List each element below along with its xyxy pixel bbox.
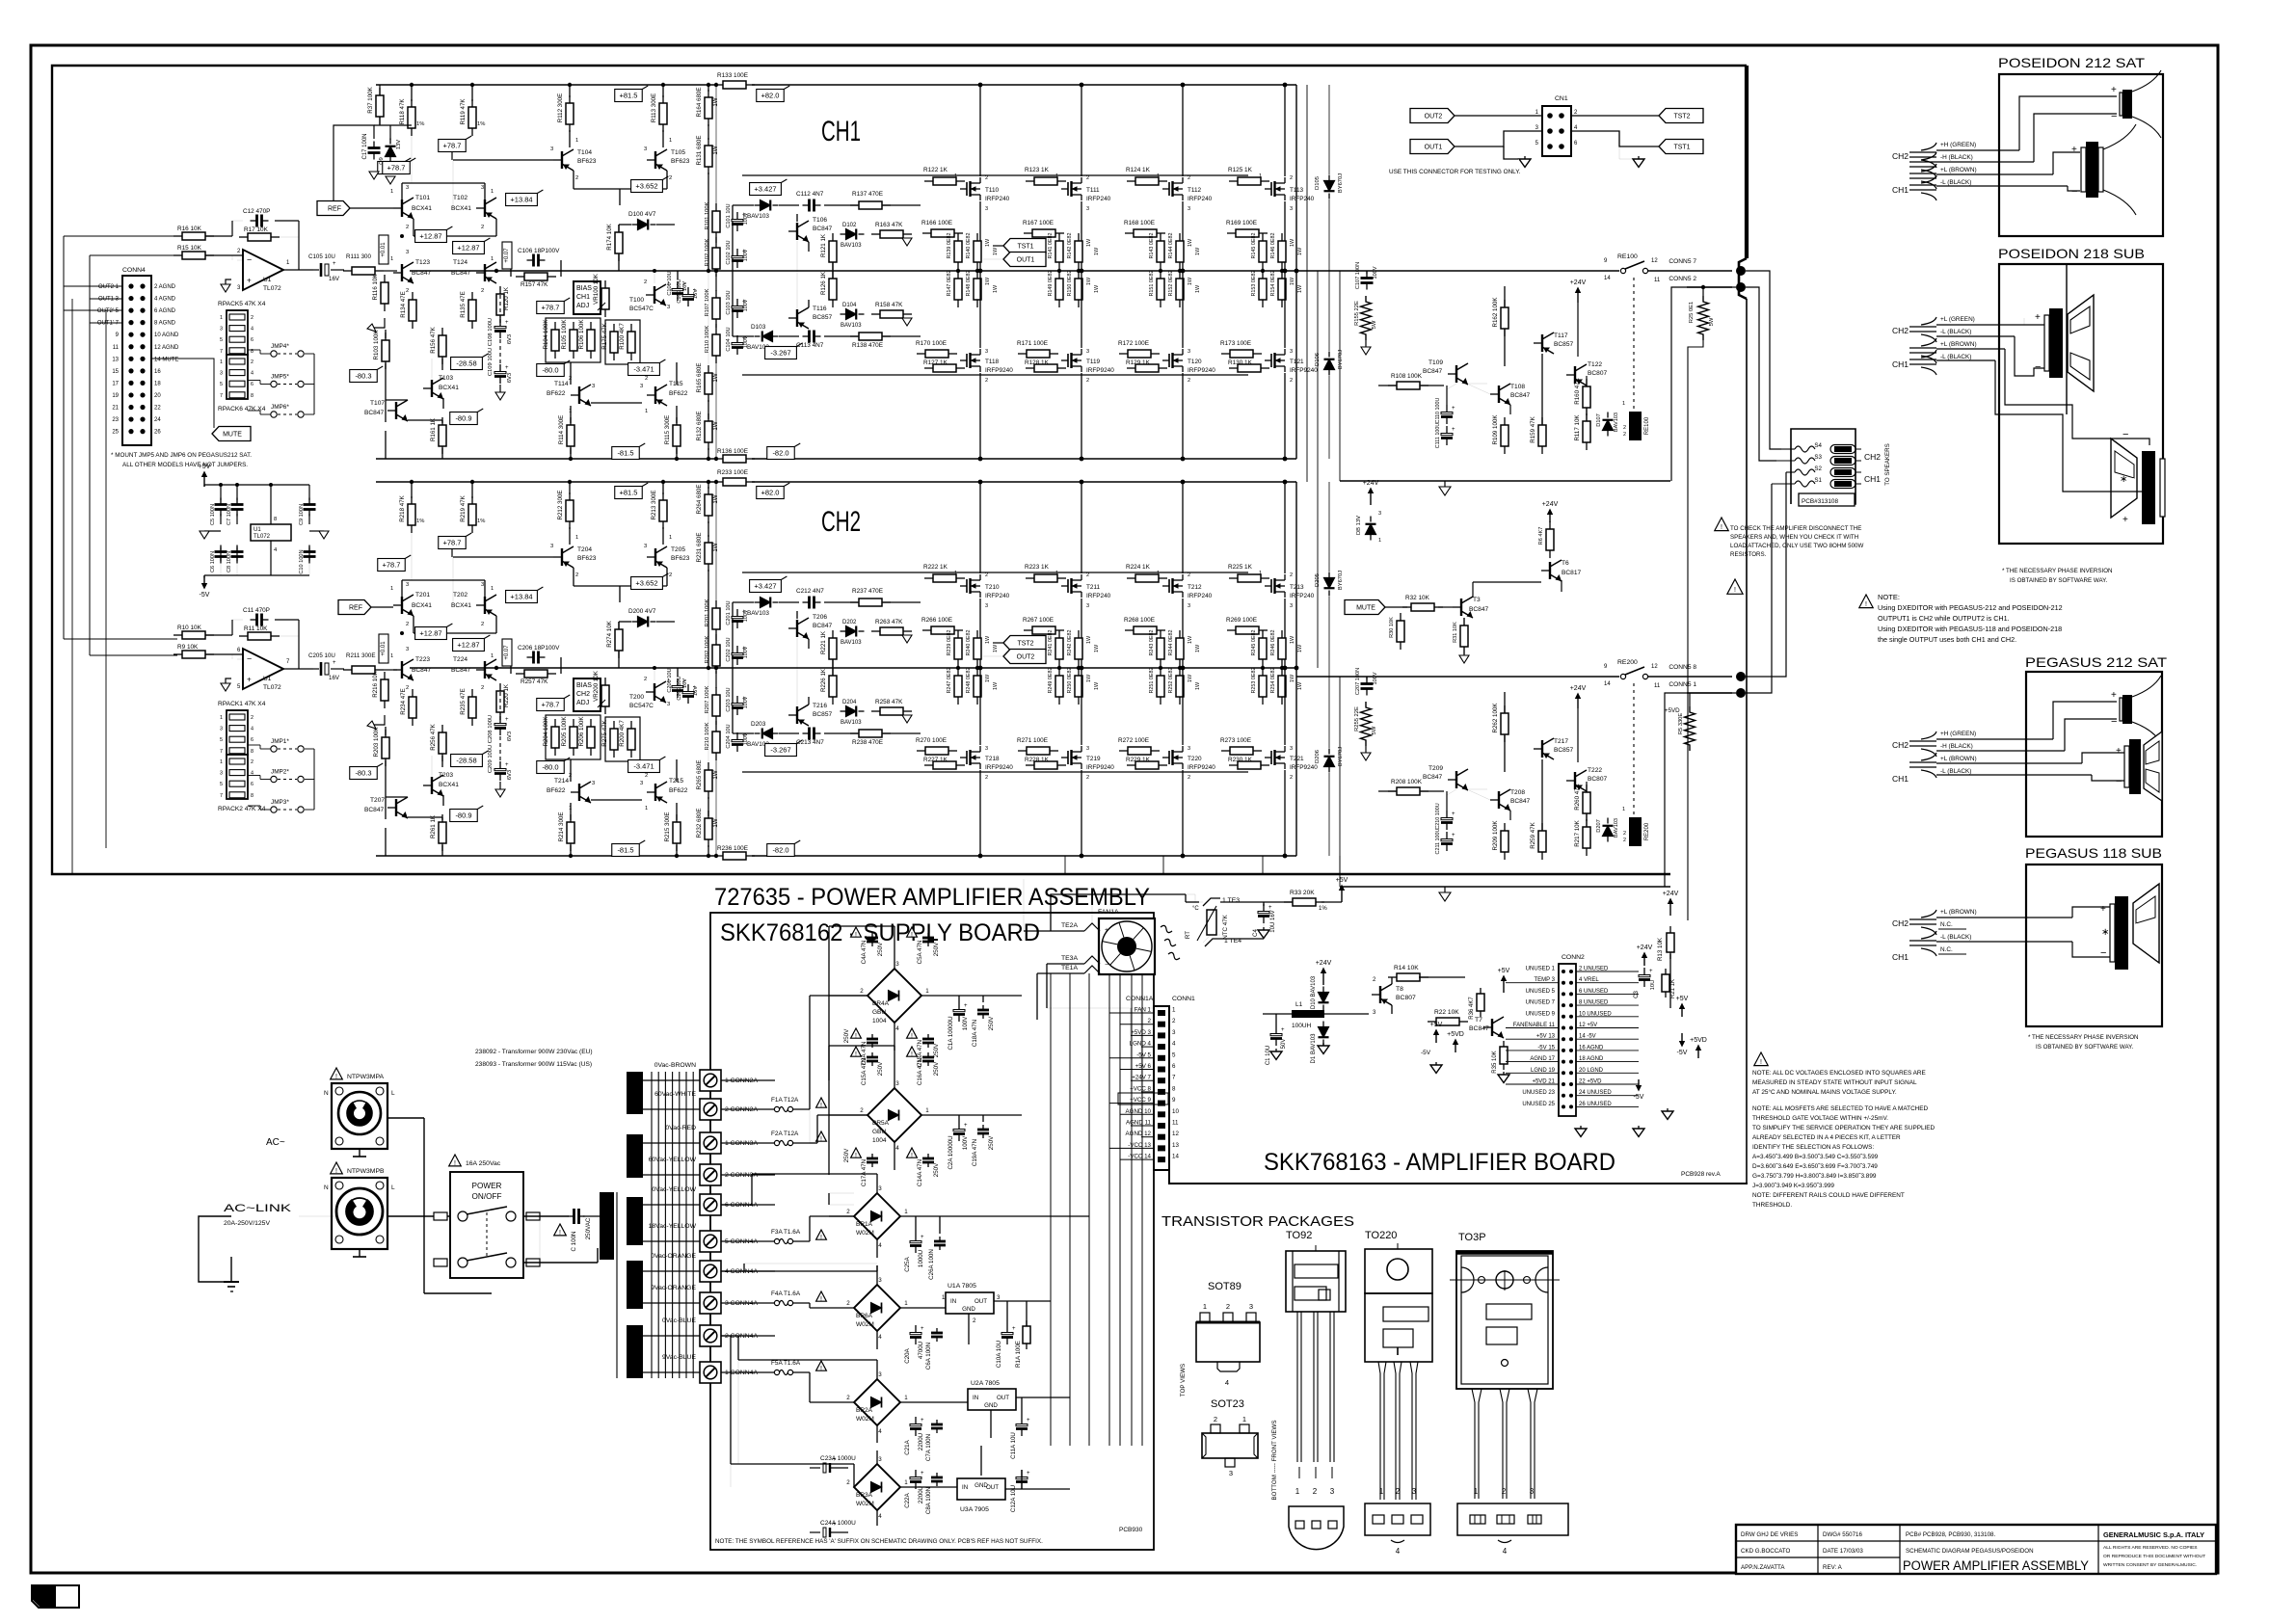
svg-text:BC817: BC817 [1562, 570, 1581, 576]
mosfet T119 IRFP9240 [1067, 354, 1069, 367]
svg-text:C7A 100N: C7A 100N [925, 1434, 932, 1461]
svg-text:IDENTIFY THE SELECTION AS: IDENTIFY THE SELECTION AS FOLLOWS: [1752, 1144, 1874, 1151]
svg-text:RPACK2 47K X4: RPACK2 47K X4 [218, 806, 266, 812]
svg-text:10: 10 [1172, 1108, 1179, 1115]
capacitor C17 100N [373, 142, 375, 148]
svg-text:1%: 1% [477, 519, 485, 524]
terminal 1 CONN4A 9Vac-BLUE [643, 1371, 700, 1373]
capacitor C212 4N7 [803, 601, 810, 603]
resistor pack RPACK2 47K X4 [227, 755, 248, 799]
svg-text:R242 0E82: R242 0E82 [1067, 630, 1073, 656]
svg-text:−: − [2035, 361, 2041, 373]
resistor R125 1K CH2 [1229, 577, 1238, 579]
wires driver CH1 [733, 204, 754, 206]
wire drain column CH2 col1 [1081, 482, 1082, 573]
svg-text:D100 4V7: D100 4V7 [628, 211, 656, 218]
svg-text:R174 10K: R174 10K [606, 223, 613, 250]
resistor R112 300E [569, 95, 571, 103]
svg-text:BY670J: BY670J [1338, 571, 1344, 590]
svg-text:14: 14 [1604, 681, 1611, 687]
svg-text:+: + [833, 1522, 837, 1528]
svg-text:* THE NECESSARY PHASE INVE: * THE NECESSARY PHASE INVERSION [2028, 1034, 2139, 1041]
hexflag MUTE mid [1345, 600, 1385, 615]
svg-text:R214 300E: R214 300E [558, 812, 565, 842]
svg-text:+3.427: +3.427 [754, 582, 776, 591]
svg-text:F5A T1.6A: F5A T1.6A [771, 1360, 801, 1367]
svg-text:R144 0E82: R144 0E82 [1168, 233, 1174, 259]
svg-text:22: 22 [154, 406, 161, 412]
svg-text:R138 470E: R138 470E [852, 342, 883, 349]
voltage -3.471 CH1 [628, 363, 660, 376]
source resistors lower R147 R148 0E82 [957, 271, 959, 279]
svg-text:1W: 1W [712, 818, 719, 827]
svg-text:+24V 7: +24V 7 [1132, 1075, 1151, 1081]
junction dots col2 CH1 [1181, 83, 1186, 88]
svg-text:14: 14 [1172, 1154, 1179, 1160]
svg-text:WRITTEN CONSENT BY GENER: WRITTEN CONSENT BY GENERALMUSIC. [2103, 1562, 2197, 1568]
junction dots col3 CH1 [1283, 83, 1288, 88]
package TO220 bottom [1365, 1503, 1430, 1535]
svg-text:R161 1K: R161 1K [430, 417, 437, 441]
svg-text:+5VD: +5VD [1665, 707, 1680, 714]
svg-text:RT: RT [1185, 931, 1191, 939]
svg-text:UNUSED 23: UNUSED 23 [1522, 1090, 1555, 1096]
svg-text:JMP1*: JMP1* [271, 738, 289, 745]
resistor R127 1K CH1 [924, 367, 933, 369]
resistor R121 1K [832, 233, 834, 241]
svg-text:-VCC 13: -VCC 13 [1128, 1142, 1151, 1149]
pin CONN1 -VCC 13 [1158, 1145, 1165, 1151]
svg-text:+12.87: +12.87 [457, 641, 479, 650]
svg-text:+VCC 8: +VCC 8 [1130, 1085, 1151, 1092]
svg-text:!: ! [820, 1136, 822, 1143]
svg-text:TOP VIEWS: TOP VIEWS [1180, 1364, 1187, 1397]
svg-text:0Vac-ORANGE: 0Vac-ORANGE [651, 1253, 696, 1260]
svg-text:-82.0: -82.0 [772, 846, 788, 855]
svg-text:4: 4 [878, 1428, 882, 1435]
svg-text:5W: 5W [1372, 726, 1377, 734]
svg-text:R36 4K7: R36 4K7 [1469, 997, 1475, 1020]
wires bias CH1 [618, 225, 620, 231]
wire drain column CH1 col1 [1081, 85, 1082, 176]
transistor T3 BC847 [1460, 599, 1462, 616]
diode D206 BY670J [1328, 749, 1330, 755]
svg-text:60Vac-YELLOW: 60Vac-YELLOW [649, 1157, 697, 1163]
svg-text:BC857: BC857 [813, 711, 832, 718]
svg-text:+24V: +24V [1363, 480, 1379, 487]
connector lug S1 [1830, 480, 1855, 489]
voltage +3.652 CH2 [631, 577, 663, 590]
svg-text:C6 100N: C6 100N [210, 551, 216, 572]
svg-text:R137 470E: R137 470E [852, 191, 883, 198]
svg-text:R210 100K: R210 100K [705, 722, 710, 750]
svg-text:CH2: CH2 [1864, 452, 1881, 462]
svg-text:F4A T1.6A: F4A T1.6A [771, 1290, 801, 1297]
transistor T6 BC817 [1549, 562, 1551, 579]
svg-text:REF: REF [328, 206, 341, 213]
ground conn2 [1580, 1126, 1582, 1129]
svg-text:C3: C3 [1634, 991, 1640, 998]
svg-text:R271 100E: R271 100E [1017, 737, 1048, 744]
capacitor C10 100N [308, 545, 310, 552]
hexflag REF CH2 [338, 600, 371, 615]
svg-text:1: 1 [491, 653, 494, 659]
mosfet T113 IRFP240 [1270, 182, 1272, 196]
svg-text:R124 1K: R124 1K [1126, 167, 1151, 173]
svg-text:2: 2 [251, 715, 254, 721]
svg-text:R130 1K: R130 1K [1228, 359, 1253, 366]
wires poseidon212 [1936, 149, 2019, 151]
svg-text:3: 3 [644, 544, 647, 549]
+24V arrow DB [1370, 493, 1372, 505]
svg-text:+3.652: +3.652 [635, 182, 657, 191]
svg-text:BC847: BC847 [813, 226, 832, 232]
svg-text:2: 2 [1188, 572, 1190, 578]
svg-text:3: 3 [895, 1080, 899, 1087]
svg-text:LOAD ATTACHED, ONLY USE TW: LOAD ATTACHED, ONLY USE TWO 8OHM 500W [1730, 543, 1863, 549]
svg-text:C100 10U: C100 10U [677, 279, 682, 303]
capacitor C6A 100N [936, 1328, 938, 1333]
svg-text:R170 100E: R170 100E [916, 340, 947, 347]
svg-text:2: 2 [1188, 378, 1190, 384]
svg-text:1W: 1W [1195, 247, 1201, 255]
voltage +78.7 bias CH2 [537, 699, 565, 711]
svg-text:238092 - Transformer 900W: 238092 - Transformer 900W 230Vac (EU) [475, 1049, 593, 1055]
svg-text:POWER: POWER [472, 1182, 502, 1190]
svg-text:1: 1 [1259, 173, 1262, 179]
svg-text:!: ! [335, 1074, 337, 1080]
svg-text:C18A 47N: C18A 47N [972, 1020, 978, 1047]
svg-text:R246 0E82: R246 0E82 [1270, 630, 1276, 656]
svg-text:C16A 47N: C16A 47N [917, 1058, 923, 1085]
svg-text:14 MUTE: 14 MUTE [154, 357, 178, 362]
transistor T209 BC847 [1455, 771, 1457, 788]
svg-text:!: ! [855, 932, 857, 939]
ground c108 CH2 [499, 782, 501, 789]
svg-text:2: 2 [1290, 572, 1293, 578]
capacitor C5 100N [220, 498, 222, 505]
svg-text:IRFP240: IRFP240 [985, 593, 1010, 599]
svg-text:FAN1A: FAN1A [1098, 909, 1119, 916]
svg-text:GND: GND [984, 1402, 998, 1409]
wire relay to conn5 CH2 [1648, 676, 1732, 678]
zener Q9 13V [389, 139, 391, 145]
svg-text:R117 10K: R117 10K [1574, 414, 1581, 441]
svg-text:4700U: 4700U [918, 1342, 924, 1359]
svg-text:3: 3 [406, 250, 409, 255]
svg-text:3: 3 [644, 146, 647, 152]
svg-text:!: ! [820, 1366, 822, 1372]
svg-text:2: 2 [1086, 572, 1089, 578]
resistor R172 100E CH1 [1119, 353, 1128, 355]
svg-text:+: + [1649, 969, 1653, 974]
mosfet T118 IRFP9240 [966, 354, 968, 367]
svg-text:C4A 47N: C4A 47N [861, 941, 868, 965]
svg-text:BF622: BF622 [547, 390, 566, 397]
svg-text:+5V: +5V [1336, 877, 1348, 884]
source resistors R141 R142 0E82 [1058, 233, 1060, 241]
resistor R31 10K [1463, 618, 1465, 625]
capacitor C1A 10000U 100V [958, 1002, 960, 1010]
wires bridge BR4A [894, 926, 895, 969]
svg-text:R223 1K: R223 1K [1025, 564, 1050, 571]
wires lower input CH2 [385, 727, 387, 735]
resistor R202 100K [715, 637, 717, 645]
svg-text:100V: 100V [1373, 266, 1378, 279]
svg-text:G=3.750˜3.799 H=3.800˜3.849: G=3.750˜3.799 H=3.800˜3.849 I=3.850˜3.89… [1752, 1173, 1877, 1180]
svg-text:R133 100E: R133 100E [717, 72, 748, 79]
svg-text:1W: 1W [1290, 674, 1295, 682]
svg-text:6V3: 6V3 [507, 770, 513, 780]
svg-text:R266 100E: R266 100E [921, 617, 952, 624]
svg-text:1: 1 [904, 1300, 908, 1307]
svg-text:+78.7: +78.7 [443, 142, 462, 150]
capacitor C100b 10U 16V [687, 287, 689, 295]
mosfet T120 IRFP9240 [1168, 354, 1170, 367]
svg-text:11: 11 [1654, 278, 1661, 283]
svg-text:SKK768163 - AMPLIFIER BOARD: SKK768163 - AMPLIFIER BOARD [1264, 1149, 1615, 1176]
voltage -80.0 CH2 [537, 761, 565, 774]
svg-text:OUT: OUT [997, 1395, 1009, 1401]
capacitor C4 10U 16V [1263, 904, 1265, 912]
svg-text:CONN5 8: CONN5 8 [1669, 664, 1696, 671]
svg-text:R101 100K: R101 100K [705, 201, 710, 229]
resistor R116 10K [384, 275, 386, 282]
svg-text:CH1: CH1 [576, 294, 590, 301]
resistor R168 100E CH2 [1125, 629, 1134, 631]
diode D101 BAV103 [755, 204, 761, 206]
svg-text:PCB928 rev.A: PCB928 rev.A [1681, 1171, 1721, 1178]
resistor R264 680E [707, 487, 709, 494]
resistor R128 1K CH1 [1026, 367, 1034, 369]
capacitor C2A 10000U 100V [958, 1122, 960, 1130]
connector NTPW3MPB [331, 1162, 343, 1174]
svg-text:D=3.600˜3.649 E=3.650˜3.699: D=3.600˜3.649 E=3.650˜3.699 F=3.700˜3.74… [1752, 1163, 1878, 1170]
svg-text:NOTE: ALL DC VOLTAGES ENCL: NOTE: ALL DC VOLTAGES ENCLOSED INTO SQUA… [1752, 1070, 1926, 1077]
svg-text:1 TE3: 1 TE3 [1222, 897, 1240, 904]
svg-text:2: 2 [846, 1479, 850, 1486]
inductor L1 100UH [1292, 1010, 1324, 1018]
svg-text:1: 1 [220, 715, 223, 721]
svg-text:1W: 1W [1188, 238, 1193, 247]
svg-text:T105: T105 [671, 149, 685, 156]
svg-text:R106 100K: R106 100K [578, 319, 585, 350]
svg-text:1: 1 [1474, 1487, 1479, 1496]
+5V arrow power block [203, 477, 205, 487]
svg-text:RPACK5 47K X4: RPACK5 47K X4 [218, 301, 266, 307]
svg-text:1: 1 [1378, 538, 1381, 544]
wire ref supply [334, 125, 374, 200]
svg-text:1W: 1W [993, 284, 999, 293]
source resistors R239 R240 0E82 [957, 630, 959, 638]
svg-text:R150 0E82: R150 0E82 [1067, 271, 1073, 297]
pin CONN1 AGND 12 [1158, 1134, 1165, 1140]
svg-text:100V: 100V [962, 1016, 969, 1030]
svg-text:BCX41: BCX41 [451, 602, 471, 609]
resistor R207 100K [715, 687, 717, 695]
voltage +78.7 b CH2 [378, 559, 406, 572]
svg-text:CH1: CH1 [1892, 774, 1909, 784]
svg-text:1: 1 [1172, 1007, 1176, 1014]
svg-text:AGND 10: AGND 10 [1126, 1108, 1152, 1115]
svg-text:C105 10U: C105 10U [308, 253, 335, 260]
resistor R21 1K [1665, 969, 1667, 974]
junction dots rails CH1 [410, 83, 414, 87]
svg-text:CH1: CH1 [1864, 474, 1881, 484]
wires opamp CH1 [205, 235, 232, 237]
wires supply routing [809, 996, 811, 1109]
wires cn1 [1455, 115, 1542, 117]
terminal 1 CONN3A 0Vac-RED [643, 1142, 700, 1144]
svg-text:BF623: BF623 [577, 555, 597, 562]
svg-text:+: + [1452, 811, 1455, 817]
capacitor C4A 47N [871, 933, 873, 938]
svg-text:R203 100K: R203 100K [373, 727, 380, 758]
svg-text:+: + [1452, 427, 1455, 433]
svg-text:POSEIDON 212 SAT: POSEIDON 212 SAT [1998, 55, 2146, 70]
svg-text:* THE NECESSARY PHASE INVE: * THE NECESSARY PHASE INVERSION [2002, 568, 2113, 574]
svg-text:R229 1K: R229 1K [1126, 757, 1151, 763]
svg-text:-5V: -5V [1421, 1050, 1431, 1056]
svg-text:3: 3 [667, 702, 670, 707]
svg-text:1: 1 [925, 988, 929, 995]
svg-text:1: 1 [645, 806, 648, 811]
resistor R111 300E [343, 270, 352, 272]
voltage +82.0 CH2 [757, 487, 785, 499]
diode D207 BAV103 [1607, 818, 1609, 824]
svg-text:1%: 1% [477, 121, 485, 127]
svg-text:250V: 250V [877, 942, 884, 956]
svg-text:7: 7 [220, 793, 223, 799]
svg-text:1: 1 [904, 1395, 908, 1401]
svg-text:R172 100E: R172 100E [1118, 340, 1149, 347]
svg-text:26: 26 [154, 430, 161, 436]
svg-text:OUT: OUT [974, 1298, 987, 1305]
svg-text:DB 13V: DB 13V [1356, 516, 1362, 535]
svg-text:13V: 13V [396, 140, 402, 149]
resistor R209 100K [1504, 823, 1506, 831]
svg-text:ALL RIGHTS ARE RESERVED. NO: ALL RIGHTS ARE RESERVED. NO COPIES [2103, 1545, 2198, 1551]
svg-text:+24V: +24V [1570, 685, 1587, 692]
svg-text:C9 100N: C9 100N [299, 504, 305, 525]
svg-text:R163 47K: R163 47K [875, 222, 903, 228]
svg-text:IRFP9240: IRFP9240 [1188, 764, 1215, 771]
svg-text:14: 14 [1604, 276, 1611, 281]
svg-text:Using DXEDITOR with PEGASUS: Using DXEDITOR with PEGASUS-212 and POSE… [1878, 603, 2063, 612]
svg-text:1W: 1W [1297, 644, 1303, 652]
svg-text:R139 0E82: R139 0E82 [947, 233, 952, 259]
svg-text:OR REPRODUCE THIS DOCUMENT: OR REPRODUCE THIS DOCUMENT WITHOUT [2103, 1554, 2205, 1559]
pin CONN4 row 1 [128, 283, 133, 288]
svg-text:C19A 47N: C19A 47N [972, 1139, 978, 1166]
svg-text:R258 47K: R258 47K [875, 699, 903, 705]
svg-text:100V: 100V [743, 249, 749, 261]
pin CONN1 +VCC 8 [1158, 1089, 1165, 1095]
svg-text:3: 3 [220, 727, 223, 732]
svg-text:T206: T206 [813, 614, 827, 621]
svg-text:11: 11 [1172, 1120, 1179, 1127]
resistor R123 1K CH1 [1026, 180, 1034, 182]
resistor R128 1K CH2 [1026, 764, 1034, 766]
svg-text:-80.3: -80.3 [355, 769, 371, 778]
diode D201 BAV103 [755, 601, 761, 603]
svg-text:1: 1 [575, 138, 578, 144]
voltage +0.01 CH2 [379, 634, 388, 663]
capacitor C12A 10U [1021, 1470, 1023, 1477]
svg-text:R127 1K: R127 1K [923, 359, 948, 366]
svg-text:BR2A: BR2A [856, 1407, 873, 1414]
+24V arrow cluster CH2 [1577, 699, 1579, 708]
voltage -3.267 CH2 [765, 744, 797, 757]
svg-text:BAV103: BAV103 [841, 243, 862, 249]
svg-text:T216: T216 [813, 703, 827, 709]
svg-text:2: 2 [973, 1317, 976, 1324]
svg-text:12: 12 [1172, 1131, 1179, 1137]
svg-text:7: 7 [220, 349, 223, 355]
svg-text:BY670J: BY670J [1338, 350, 1344, 369]
svg-text:C12 470P: C12 470P [243, 208, 270, 215]
diode D1 BAV103 [1322, 1022, 1324, 1027]
svg-text:3: 3 [985, 349, 988, 355]
capacitor C18A 47N [982, 1005, 984, 1010]
svg-text:R274 10K: R274 10K [606, 620, 613, 647]
pin CONN1 -VCC 14 [1158, 1157, 1165, 1162]
wire conn5 2 left return [1671, 287, 1736, 481]
bridge BR2A W02M [854, 1379, 900, 1425]
voltage +12.87 b CH2 [453, 639, 485, 652]
svg-text:W02M: W02M [856, 1416, 874, 1423]
svg-text:6V3: 6V3 [507, 334, 513, 344]
bridge BR3A W02M [854, 1464, 900, 1510]
resistor R16 10K [174, 235, 182, 237]
voltage -28.58 CH2 [451, 755, 483, 767]
svg-text:OUT: OUT [986, 1484, 999, 1491]
terminal 5 CONN4A 18Vac-YELLOW [643, 1240, 700, 1242]
wires speaker outputs [1781, 448, 1795, 450]
svg-text:5: 5 [1172, 1051, 1176, 1058]
resistor R133 100E [714, 84, 723, 86]
svg-text:10U 16V: 10U 16V [1270, 910, 1276, 932]
svg-text:IN: IN [962, 1484, 968, 1491]
svg-text:T201: T201 [415, 592, 430, 599]
+24V arrow L1 [1322, 973, 1324, 985]
svg-text:R227 1K: R227 1K [923, 757, 948, 763]
-5V arrow power block [203, 575, 205, 578]
svg-text:!: ! [559, 1230, 561, 1237]
wires supply vertical buses [1050, 973, 1052, 1446]
resistor R119 47K [471, 99, 473, 107]
wire gate rail top CH1 [742, 174, 1248, 176]
svg-text:18: 18 [154, 381, 161, 386]
ground C1 D1 [1275, 1049, 1277, 1051]
wire fan te2a loop [1092, 894, 1203, 923]
svg-text:GENERALMUSIC S.p.A. ITALY: GENERALMUSIC S.p.A. ITALY [2103, 1530, 2204, 1539]
svg-text:C110 100U: C110 100U [1435, 397, 1441, 423]
svg-text:R113 300E: R113 300E [651, 93, 657, 123]
svg-text:OUT1: OUT1 [1425, 145, 1443, 151]
svg-text:3: 3 [878, 1456, 882, 1463]
transformer windings [627, 1072, 643, 1114]
svg-text:BF623: BF623 [671, 158, 690, 165]
svg-text:AGND 12: AGND 12 [1126, 1131, 1152, 1137]
svg-text:3: 3 [592, 781, 595, 786]
svg-text:GND: GND [962, 1306, 975, 1313]
svg-text:UNUSED 5: UNUSED 5 [1526, 989, 1556, 995]
wire fan connections [1024, 930, 1084, 932]
svg-text:3: 3 [481, 185, 484, 191]
svg-text:BCX41: BCX41 [412, 205, 432, 212]
svg-text:R272 100E: R272 100E [1118, 737, 1149, 744]
